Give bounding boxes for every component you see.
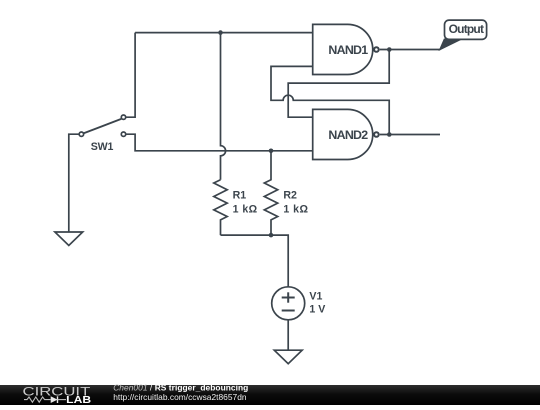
wire NAND2 output stub (380, 134, 440, 136)
ground symbol right (274, 350, 302, 364)
wire NAND1 output to flag (380, 49, 441, 51)
resistor R2 (264, 151, 308, 235)
V1 minus sign (282, 310, 295, 312)
junction dot NAND2 output (387, 132, 392, 137)
wire switch bottom terminal to NAND2 input B (126, 134, 312, 151)
svg-text:1 kΩ: 1 kΩ (283, 203, 308, 215)
SW1 throw terminal bottom (121, 132, 125, 136)
output flag pointer (439, 39, 461, 50)
V1 plus sign (282, 297, 295, 299)
svg-text:http://circuitlab.com/ccwsa2t8: http://circuitlab.com/ccwsa2t8657dn (113, 392, 247, 402)
output flag "Output" (439, 20, 486, 50)
SW1 common terminal (79, 132, 83, 136)
wire V1 minus to ground (287, 320, 289, 350)
wire bottom rail R1/R2 to V1 (221, 235, 289, 287)
junction dot NAND1 output (387, 47, 392, 52)
svg-text:NAND1: NAND1 (328, 43, 368, 57)
SW1 throw terminal top (121, 115, 125, 119)
wire NAND1 output to NAND2 input A (288, 50, 389, 118)
svg-text:Output: Output (449, 22, 484, 36)
SW1 lever (84, 119, 122, 133)
svg-text:1 kΩ: 1 kΩ (233, 203, 258, 215)
svg-text:1 V: 1 V (309, 304, 325, 316)
wire NAND2 output to NAND1 input B (hops over vertical) (271, 66, 389, 134)
junction dot bottom rail at R2 (269, 233, 274, 238)
junction dot R2 top (269, 149, 274, 154)
wire R1 feed from top net (hops over switch wire) (221, 33, 226, 180)
CircuitLab logo (23, 384, 92, 406)
wire top net (135, 32, 313, 34)
NAND gate NAND2 (313, 109, 379, 159)
voltage source V1 (272, 287, 326, 320)
wire switch top terminal to top net (126, 33, 135, 118)
footer bar (0, 385, 540, 405)
svg-text:NAND2: NAND2 (328, 128, 368, 142)
svg-text:LAB: LAB (66, 395, 91, 405)
NAND1 output bubble (374, 47, 379, 52)
svg-text:R1: R1 (233, 190, 247, 202)
NAND2 output bubble (374, 132, 379, 137)
wire switch common to ground (69, 134, 79, 232)
svg-text:SW1: SW1 (91, 141, 114, 153)
junction dot top net at R1 (218, 30, 223, 35)
resistor R1 (214, 180, 258, 235)
svg-text:Chen001 / RS trigger_debouncin: Chen001 / RS trigger_debouncing (113, 382, 248, 392)
ground symbol left (55, 232, 83, 246)
NAND gate NAND1 (313, 24, 379, 74)
svg-text:V1: V1 (309, 291, 322, 303)
svg-text:R2: R2 (283, 190, 297, 202)
switch SW1 (79, 115, 126, 153)
output flag box (445, 20, 487, 39)
